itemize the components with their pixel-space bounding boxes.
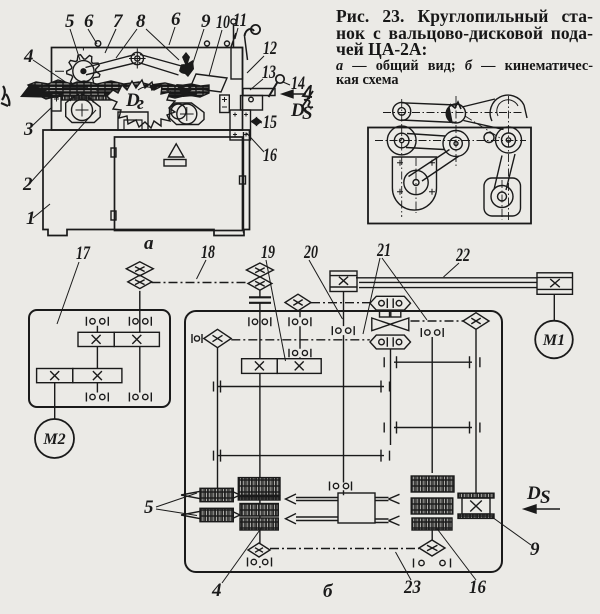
base inner right edge bbox=[243, 132, 245, 233]
outfeed table bbox=[241, 89, 276, 111]
feed roller center stack bbox=[238, 478, 280, 530]
label 13 bbox=[250, 62, 276, 90]
svg-text:8: 8 bbox=[136, 11, 146, 32]
pressure shoe dark bbox=[179, 64, 191, 74]
belt P2-motorL bbox=[409, 150, 460, 182]
bearing on shaft 140 top bbox=[129, 317, 151, 326]
label 15 bbox=[259, 112, 277, 133]
axis vertical left bbox=[401, 99, 403, 217]
lever 11 bbox=[231, 19, 236, 47]
label 2 bbox=[22, 110, 96, 195]
svg-text:а: а bbox=[144, 233, 154, 254]
svg-text:12: 12 bbox=[263, 38, 277, 59]
saw pulley 9 bbox=[458, 493, 494, 518]
svg-text:11: 11 bbox=[233, 10, 247, 31]
scan mark middle bbox=[302, 85, 313, 107]
label 17 bbox=[57, 243, 91, 324]
shaft 260 vertical bbox=[259, 290, 261, 568]
top pulley T1 bbox=[393, 102, 411, 120]
feed roller upper left pair bbox=[181, 488, 240, 521]
rocker pivot bbox=[129, 49, 146, 69]
bevel gear pair X upper-left in box 17 bbox=[78, 332, 159, 346]
svg-text:22: 22 bbox=[455, 245, 470, 266]
label 16a bbox=[247, 133, 278, 166]
axis vertical middle bbox=[455, 96, 457, 168]
bearing below sprocket 432 bbox=[414, 559, 451, 568]
machine base bbox=[43, 130, 250, 236]
belt T2-arc bbox=[462, 99, 504, 130]
axis vertical motorL bbox=[415, 158, 417, 213]
feed direction arrow top bbox=[282, 90, 313, 124]
door hinge top bbox=[111, 148, 116, 157]
label 23 bbox=[396, 552, 422, 598]
speed cone bowtie bbox=[372, 318, 409, 331]
bevel gear pair 19 in frame bbox=[242, 359, 322, 374]
door hinge bottom bbox=[111, 211, 116, 220]
svg-text:14: 14 bbox=[291, 73, 305, 94]
belt 22 lower line bbox=[359, 287, 537, 289]
cross shaft B left bbox=[214, 450, 390, 462]
svg-text:10: 10 bbox=[216, 12, 230, 33]
motor left bbox=[392, 157, 436, 210]
label 4a bbox=[23, 46, 67, 83]
svg-text:17: 17 bbox=[76, 243, 91, 264]
saw mount block bbox=[338, 493, 375, 523]
right column bbox=[231, 48, 243, 80]
belt 22 upper line bbox=[356, 277, 537, 279]
label 3 bbox=[23, 107, 52, 140]
svg-text:М2: М2 bbox=[42, 431, 65, 448]
lumber line left lower bbox=[286, 514, 339, 524]
svg-text:15: 15 bbox=[263, 112, 277, 133]
right pulley of belt 22 bbox=[537, 273, 573, 295]
label 18 bbox=[197, 242, 216, 279]
V-pulley pair above box 17 bbox=[126, 262, 153, 289]
V-pulley with X on shaft 217 bbox=[204, 329, 231, 347]
svg-text:23: 23 bbox=[403, 577, 421, 598]
label 5 bbox=[144, 493, 197, 518]
svg-text:2: 2 bbox=[22, 174, 33, 195]
label 14 bbox=[283, 73, 305, 94]
svg-text:4: 4 bbox=[23, 46, 34, 67]
shaft 300 vertical bbox=[299, 311, 301, 359]
svg-text:5: 5 bbox=[144, 497, 154, 518]
saw blade jagged blob bbox=[107, 80, 175, 128]
svg-text:6: 6 bbox=[84, 11, 94, 32]
door warning triangle bbox=[169, 144, 184, 157]
saw spindle shaft 343 bbox=[343, 292, 345, 496]
saw arbor bearing bbox=[330, 482, 352, 491]
label 19 bbox=[261, 242, 286, 361]
small bracket with screws bbox=[220, 95, 230, 113]
shaft 477 vertical bbox=[475, 329, 477, 493]
axis dash-dot horizontal bbox=[375, 140, 526, 142]
door bbox=[115, 137, 243, 231]
svg-text:S: S bbox=[540, 487, 551, 508]
left bracket bbox=[52, 94, 62, 112]
label 6b bbox=[169, 9, 181, 45]
feed gearwheel bbox=[55, 48, 100, 88]
belt 18 dash-dot line bbox=[152, 282, 249, 284]
bevel gear pair X lower-left in box 17 bbox=[37, 369, 122, 383]
svg-text:5: 5 bbox=[65, 11, 75, 32]
board dark streaks bbox=[30, 87, 209, 94]
top pulley T2 dark bbox=[446, 102, 465, 123]
bearing on shaft 97 bottom bbox=[86, 393, 108, 402]
label 21 bbox=[363, 240, 427, 334]
rack strip bbox=[62, 96, 112, 101]
V-pulley with X on shaft 300 above frame bbox=[285, 294, 311, 311]
axis horizontal top bbox=[383, 112, 523, 114]
tension link T2-P3 bbox=[465, 116, 500, 138]
saw mount box bbox=[118, 112, 148, 130]
label 1 bbox=[26, 204, 50, 229]
rocker arm left bbox=[86, 55, 137, 75]
bearing shaft 432 bbox=[421, 328, 443, 337]
motor M2 bbox=[35, 419, 74, 458]
shaft 432 vertical bbox=[431, 337, 433, 540]
bearing on saw spindle 343 bbox=[332, 326, 354, 335]
lower sprocket housing bbox=[66, 94, 101, 122]
door plate bbox=[164, 160, 186, 167]
speed cone block lower hexagon bbox=[370, 335, 411, 349]
belt 22 middle line bbox=[359, 281, 537, 283]
outfeed plate bbox=[190, 74, 227, 92]
rocker arm right bbox=[139, 55, 182, 76]
svg-text:4: 4 bbox=[211, 580, 222, 601]
axis vertical right bbox=[508, 96, 510, 220]
guard arc bbox=[490, 95, 527, 121]
bearing shaft 260 in frame bbox=[249, 317, 271, 326]
lumber line right lower bbox=[375, 516, 400, 525]
dash-dot belt from pulley 217 to cone set bbox=[231, 339, 369, 341]
label 12 bbox=[247, 38, 277, 73]
label 7 bbox=[105, 11, 124, 53]
svg-text:б: б bbox=[323, 581, 334, 602]
main kinematic frame bbox=[185, 311, 502, 572]
V-pulley pair on shaft 260 above main frame bbox=[246, 263, 273, 290]
gearbox housing 17 bbox=[29, 310, 170, 407]
friction clutch on shaft 260 bbox=[249, 297, 271, 303]
svg-text:3: 3 bbox=[23, 119, 34, 140]
motor right bbox=[484, 178, 521, 216]
caption text block bbox=[336, 8, 593, 87]
bearing shaft 300 above gears bbox=[289, 349, 311, 357]
svg-text:18: 18 bbox=[201, 242, 215, 263]
bearing on shaft 97 top bbox=[86, 317, 108, 326]
svg-text:6: 6 bbox=[171, 9, 181, 30]
label 4 arrow bbox=[211, 527, 262, 601]
label 9 bottom bbox=[492, 517, 540, 560]
bearing shaft 300 in frame bbox=[289, 317, 311, 326]
guard knife dark bbox=[182, 52, 194, 77]
label 16 bbox=[437, 528, 487, 598]
V-pulley with X on shaft 477 bbox=[463, 313, 489, 330]
svg-text:16: 16 bbox=[263, 145, 277, 166]
shaft below cone block bbox=[390, 349, 392, 445]
label 11 bbox=[233, 10, 247, 39]
svg-text:13: 13 bbox=[262, 62, 276, 83]
axis vertical motorR bbox=[501, 180, 503, 220]
knob 15 bbox=[252, 118, 262, 125]
blob arrow bbox=[138, 87, 152, 90]
svg-text:7: 7 bbox=[113, 11, 124, 32]
label 10 bbox=[209, 12, 230, 76]
shaft M1 to pulley bbox=[553, 294, 555, 320]
svg-text:9: 9 bbox=[530, 539, 540, 560]
svg-text:9: 9 bbox=[201, 11, 211, 32]
belt T1-T2 bbox=[401, 103, 456, 123]
svg-text:г: г bbox=[137, 93, 144, 114]
svg-text:16: 16 bbox=[469, 577, 486, 598]
label 8 bbox=[116, 11, 179, 60]
cross shaft A left bbox=[214, 381, 390, 393]
svg-text:20: 20 bbox=[303, 242, 318, 263]
pulley P3 bbox=[496, 127, 522, 153]
svg-text:19: 19 bbox=[261, 242, 275, 263]
label 9a bbox=[191, 11, 211, 69]
feed direction Ds bottom bbox=[524, 483, 560, 513]
pulley P2 bbox=[443, 131, 469, 157]
left pulley of belt 22 bbox=[330, 271, 357, 292]
vertical shaft x97 segments bbox=[96, 326, 98, 393]
dash-dot belt cone set to pulley 477 bbox=[411, 320, 464, 322]
machine upper housing bbox=[52, 48, 243, 131]
right lower housing bbox=[170, 103, 205, 125]
pulley P1 bbox=[387, 126, 416, 155]
bearing on frame left wall bbox=[192, 334, 202, 343]
lumber line left upper bbox=[286, 494, 339, 504]
top bolts bbox=[93, 41, 103, 49]
svg-text:М1: М1 bbox=[542, 332, 565, 349]
belt P1-P2 bbox=[406, 134, 445, 150]
side frame bbox=[368, 128, 531, 224]
sprocket diamond on shaft 260 bottom bbox=[248, 543, 270, 557]
sprocket diamond on shaft 432 bottom bbox=[419, 540, 445, 556]
workpiece board bbox=[28, 80, 209, 99]
svg-text:D: D bbox=[526, 483, 541, 504]
idler small bbox=[484, 133, 494, 143]
scan mark left bbox=[1, 86, 9, 106]
lumber line right upper bbox=[375, 494, 400, 503]
bearing on shaft 140 bottom bbox=[129, 393, 151, 402]
label 20 bbox=[303, 242, 342, 319]
door latch bbox=[240, 176, 246, 184]
svg-text:1: 1 bbox=[26, 208, 36, 229]
cross shaft C right bbox=[384, 356, 480, 368]
svg-text:21: 21 bbox=[376, 240, 391, 261]
lever 12 ring handle bbox=[245, 25, 261, 60]
label 5a bbox=[65, 11, 80, 60]
chain dash-dot bottom bbox=[270, 548, 419, 550]
shaft M2 to gearbox bbox=[54, 383, 56, 419]
label 6a bbox=[84, 11, 97, 44]
speed cone connector sleeves bbox=[380, 311, 401, 318]
label 22 bbox=[444, 245, 471, 277]
dash-dot belt from pulley 300 to cone set bbox=[311, 302, 370, 304]
machine right body bbox=[230, 110, 251, 140]
bearing below sprocket 260 bbox=[248, 558, 272, 567]
shaft 217 vertical bbox=[217, 348, 219, 489]
belt P3-motorR bbox=[494, 154, 515, 190]
motor M1 bbox=[535, 321, 573, 359]
speed cone block upper hexagon bbox=[370, 296, 411, 310]
cross shaft D right bbox=[384, 422, 480, 434]
handle 14 bbox=[269, 75, 285, 97]
feed roller right stack bbox=[411, 476, 454, 530]
vertical shaft x140 segments bbox=[139, 291, 141, 393]
